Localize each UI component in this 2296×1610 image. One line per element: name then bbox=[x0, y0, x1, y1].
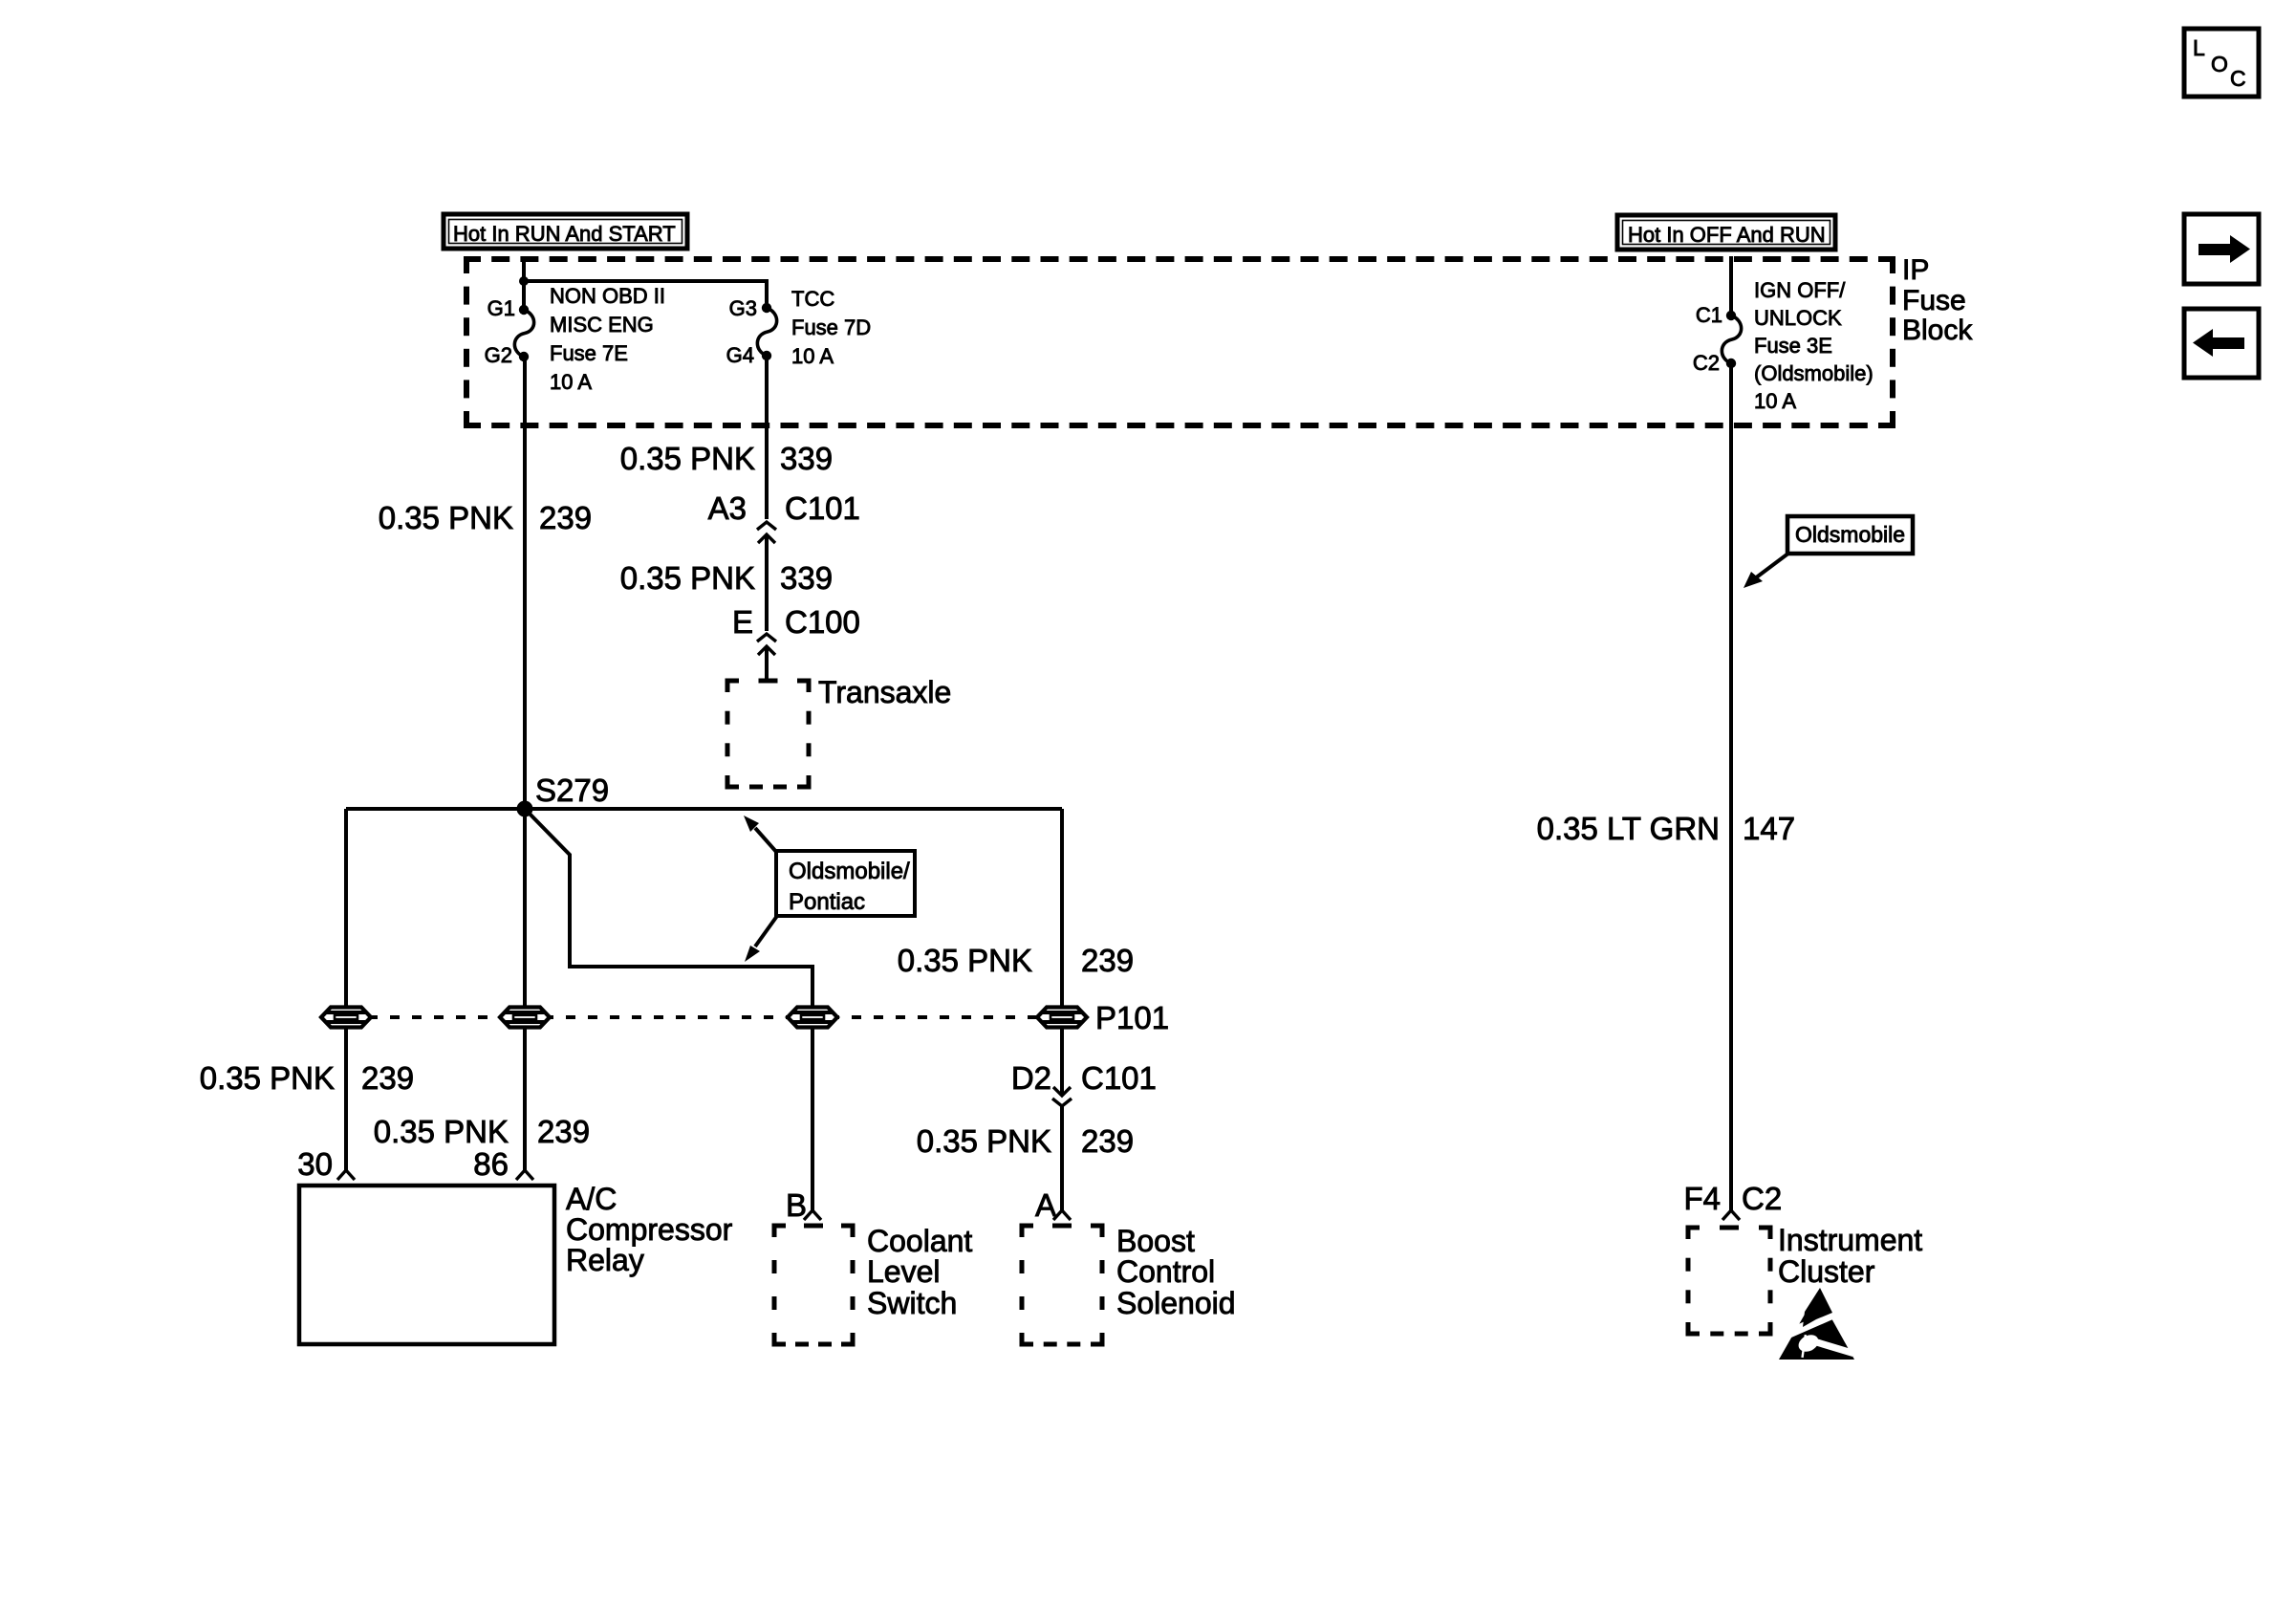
svg-text:NON OBD II: NON OBD II bbox=[550, 284, 665, 308]
wire: left branch down (to 30) bbox=[344, 809, 348, 1170]
svg-text:239: 239 bbox=[1081, 1123, 1134, 1159]
Transaxle dashed box bbox=[727, 681, 809, 787]
grommet P101 (wire 2) bbox=[500, 1008, 550, 1028]
svg-text:0.35 PNK: 0.35 PNK bbox=[620, 441, 755, 476]
fuse 7E (NON OBD II MISC ENG, G1-G2) bbox=[514, 305, 533, 361]
in-line connector C100 (E) bbox=[757, 634, 776, 642]
wire: D2 to boost solenoid bbox=[1060, 1106, 1064, 1210]
svg-text:C2: C2 bbox=[1693, 351, 1720, 375]
svg-text:F4: F4 bbox=[1683, 1181, 1721, 1216]
svg-text:0.35 LT GRN: 0.35 LT GRN bbox=[1537, 811, 1720, 846]
svg-text:A: A bbox=[1035, 1187, 1056, 1223]
Instrument Cluster dashed box bbox=[1688, 1228, 1770, 1334]
svg-text:P101: P101 bbox=[1095, 1000, 1169, 1035]
svg-text:C101: C101 bbox=[1081, 1060, 1157, 1096]
svg-text:0.35 PNK: 0.35 PNK bbox=[620, 560, 755, 596]
in-line connector C101 (A3) bbox=[757, 522, 776, 530]
svg-text:UNLOCK: UNLOCK bbox=[1754, 306, 1842, 330]
wire: G2 down to S279 bbox=[523, 357, 527, 809]
IP Fuse Block dashed outline bbox=[466, 259, 1893, 425]
svg-text:0.35 PNK: 0.35 PNK bbox=[898, 943, 1032, 978]
grommet P101 (wire 1) bbox=[321, 1008, 371, 1028]
wire: junction to G1 bbox=[522, 281, 526, 308]
splice S279 bbox=[517, 801, 533, 817]
svg-text:0.35 PNK: 0.35 PNK bbox=[379, 500, 513, 535]
ESD sensitivity symbol bbox=[1779, 1288, 1854, 1360]
wire: S279 down to 86 bbox=[523, 809, 527, 1170]
svg-text:B: B bbox=[786, 1187, 807, 1223]
svg-text:339: 339 bbox=[780, 560, 833, 596]
fuse 3E (IGN OFF/UNLOCK, C1-C2) bbox=[1722, 311, 1741, 368]
wire: C2 down to instrument cluster bbox=[1729, 363, 1733, 1210]
wire label 0.35 PNK 239 (right branch above P101) bbox=[898, 943, 1134, 978]
svg-text:10 A: 10 A bbox=[791, 344, 834, 368]
wire: feed into fuse block (right) bbox=[1729, 256, 1733, 315]
svg-text:Fuse 7D: Fuse 7D bbox=[791, 315, 871, 339]
svg-text:G2: G2 bbox=[485, 343, 512, 367]
IP Fuse Block label bbox=[1902, 254, 1973, 346]
junction dot inside fuse block bbox=[519, 276, 529, 286]
grommet P101 (wire 3) bbox=[788, 1008, 837, 1028]
fuse 3E description bbox=[1754, 278, 1874, 413]
nav arrow box (back) bbox=[2184, 309, 2259, 378]
svg-text:Boost: Boost bbox=[1116, 1224, 1195, 1258]
wire: splice bus (left and right of S279) bbox=[346, 807, 1062, 811]
terminal chevron 86 bbox=[516, 1170, 533, 1180]
wire: feed into fuse block (left) bbox=[522, 256, 526, 281]
terminal chevron F4 bbox=[1722, 1210, 1740, 1220]
svg-text:Cluster: Cluster bbox=[1778, 1254, 1875, 1289]
svg-text:Fuse 3E: Fuse 3E bbox=[1754, 334, 1832, 358]
pin labels A3 / C101 bbox=[708, 490, 860, 526]
svg-text:Oldsmobile/: Oldsmobile/ bbox=[789, 859, 910, 884]
svg-text:0.35 PNK: 0.35 PNK bbox=[200, 1060, 335, 1096]
svg-text:Oldsmobile: Oldsmobile bbox=[1795, 522, 1905, 547]
wire: C100 into transaxle bbox=[765, 646, 769, 681]
svg-text:Compressor: Compressor bbox=[566, 1212, 733, 1247]
svg-text:Switch: Switch bbox=[867, 1286, 957, 1320]
label Coolant Level Switch bbox=[867, 1224, 972, 1320]
svg-text:IGN OFF/: IGN OFF/ bbox=[1754, 278, 1846, 302]
svg-text:147: 147 bbox=[1743, 811, 1795, 846]
callout box Oldsmobile/Pontiac bbox=[776, 851, 915, 916]
terminal chevron A bbox=[1053, 1210, 1071, 1220]
label Boost Control Solenoid bbox=[1116, 1224, 1236, 1320]
svg-text:Pontiac: Pontiac bbox=[789, 889, 865, 915]
callout arrow to LT GRN wire bbox=[1744, 553, 1789, 588]
svg-text:10 A: 10 A bbox=[1754, 389, 1796, 413]
svg-text:Coolant: Coolant bbox=[867, 1224, 972, 1258]
svg-text:239: 239 bbox=[1081, 943, 1134, 978]
power feed label: Hot In OFF And RUN bbox=[1617, 215, 1835, 250]
svg-text:0.35 PNK: 0.35 PNK bbox=[374, 1114, 509, 1149]
svg-text:A/C: A/C bbox=[566, 1182, 617, 1216]
pin labels E / C100 bbox=[732, 604, 860, 640]
fuse 7D description bbox=[791, 287, 871, 368]
nav arrow box (forward) bbox=[2184, 214, 2259, 284]
Boost Control Solenoid dashed box bbox=[1022, 1226, 1102, 1344]
svg-text:D2: D2 bbox=[1011, 1060, 1051, 1096]
svg-text:Hot In OFF And RUN: Hot In OFF And RUN bbox=[1628, 223, 1826, 247]
callout box Oldsmobile bbox=[1787, 516, 1913, 554]
svg-text:30: 30 bbox=[297, 1146, 333, 1182]
svg-text:Transaxle: Transaxle bbox=[818, 675, 951, 709]
svg-text:C1: C1 bbox=[1696, 303, 1722, 327]
wire label 0.35 PNK 239 (above boost solenoid) bbox=[917, 1123, 1134, 1159]
pin labels D2 / C101 bbox=[1011, 1060, 1157, 1096]
svg-text:G1: G1 bbox=[487, 296, 515, 320]
label Instrument Cluster bbox=[1778, 1223, 1922, 1289]
label A/C Compressor Relay bbox=[566, 1182, 733, 1277]
svg-text:Fuse 7E: Fuse 7E bbox=[550, 341, 628, 365]
svg-text:Fuse: Fuse bbox=[1902, 285, 1966, 316]
svg-text:C2: C2 bbox=[1742, 1181, 1782, 1216]
svg-text:S279: S279 bbox=[535, 772, 609, 808]
svg-text:L: L bbox=[2193, 35, 2205, 60]
svg-text:Control: Control bbox=[1116, 1254, 1215, 1289]
svg-text:Solenoid: Solenoid bbox=[1116, 1286, 1236, 1320]
fuse 7D (TCC, G3-G4) bbox=[757, 303, 776, 360]
svg-text:C: C bbox=[2230, 66, 2246, 91]
svg-text:G3: G3 bbox=[729, 296, 757, 320]
svg-text:A3: A3 bbox=[708, 490, 747, 526]
svg-text:239: 239 bbox=[361, 1060, 414, 1096]
wire label 0.35 PNK 339 (above C100) bbox=[620, 560, 833, 596]
wire label 0.35 PNK 239 (centre branch) bbox=[374, 1114, 590, 1149]
LOC legend box bbox=[2184, 29, 2259, 97]
svg-text:239: 239 bbox=[537, 1114, 590, 1149]
wire label 0.35 PNK 239 (left branch) bbox=[200, 1060, 414, 1096]
wire label 0.35 PNK 239 (G2 wire) bbox=[379, 500, 592, 535]
svg-text:0.35 PNK: 0.35 PNK bbox=[917, 1123, 1051, 1159]
svg-text:O: O bbox=[2211, 52, 2228, 76]
Coolant Level Switch dashed box bbox=[774, 1226, 853, 1344]
wire: branch to TCC fuse bbox=[524, 281, 767, 303]
callout arrow to S279 bus bbox=[744, 816, 777, 853]
svg-text:IP: IP bbox=[1902, 254, 1929, 286]
svg-text:339: 339 bbox=[780, 441, 833, 476]
power feed label: Hot In RUN And START bbox=[444, 214, 687, 249]
svg-text:Block: Block bbox=[1902, 315, 1973, 346]
grommet P101 (wire 4) bbox=[1037, 1008, 1087, 1028]
svg-text:Relay: Relay bbox=[566, 1243, 644, 1277]
svg-text:Hot In RUN And START: Hot In RUN And START bbox=[453, 222, 676, 246]
svg-text:E: E bbox=[732, 604, 753, 640]
svg-text:C100: C100 bbox=[785, 604, 860, 640]
svg-text:239: 239 bbox=[539, 500, 592, 535]
wire label 0.35 LT GRN 147 bbox=[1537, 811, 1795, 846]
svg-text:10 A: 10 A bbox=[550, 370, 592, 394]
pass-through dashed line P101 bbox=[346, 1015, 1086, 1019]
wire: G4 down to C101 bbox=[765, 356, 769, 519]
wire: C101 to C100 bbox=[765, 534, 769, 631]
callout arrow to lower branch bbox=[745, 916, 777, 962]
svg-text:Instrument: Instrument bbox=[1778, 1223, 1922, 1257]
svg-text:(Oldsmobile): (Oldsmobile) bbox=[1754, 361, 1874, 385]
wire label 0.35 PNK 339 (above C101) bbox=[620, 441, 833, 476]
svg-text:TCC: TCC bbox=[791, 287, 834, 311]
svg-text:Level: Level bbox=[867, 1254, 941, 1289]
svg-text:MISC ENG: MISC ENG bbox=[550, 313, 654, 337]
svg-text:C101: C101 bbox=[785, 490, 860, 526]
wire: S279 zigzag branch to coolant level switch bbox=[525, 809, 812, 1210]
svg-text:86: 86 bbox=[473, 1146, 509, 1182]
terminal chevron 30 bbox=[337, 1170, 355, 1180]
terminal chevron B bbox=[804, 1210, 821, 1220]
fuse 7E description bbox=[550, 284, 665, 394]
A/C Compressor Relay box bbox=[299, 1186, 554, 1344]
pin labels F4 / C2 bbox=[1683, 1181, 1782, 1216]
in-line connector C101 (D2, downward) bbox=[1053, 1087, 1071, 1096]
wire: right branch down (to P101/D2) bbox=[1060, 809, 1064, 1096]
svg-text:G4: G4 bbox=[726, 343, 754, 367]
